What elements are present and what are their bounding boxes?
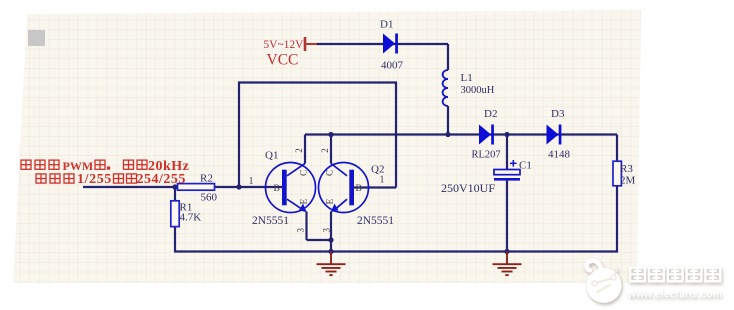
svg-text:254/255: 254/255 [137, 172, 186, 187]
svg-text:D3: D3 [551, 108, 565, 120]
svg-text:1/255: 1/255 [77, 172, 112, 187]
svg-text:R3: R3 [620, 163, 633, 175]
svg-text:560: 560 [201, 192, 218, 204]
svg-text:D1: D1 [380, 19, 393, 31]
svg-text:4007: 4007 [381, 60, 404, 72]
svg-text:C: C [326, 170, 336, 176]
svg-text:2: 2 [320, 148, 330, 153]
svg-text:C: C [300, 170, 310, 176]
svg-text:E: E [326, 199, 336, 205]
svg-text:250V10UF: 250V10UF [441, 181, 495, 195]
svg-text:L1: L1 [461, 72, 473, 84]
svg-text:2M: 2M [620, 175, 636, 187]
svg-text:Q1: Q1 [265, 150, 278, 162]
svg-text:3: 3 [322, 228, 332, 233]
svg-text:3000uH: 3000uH [461, 85, 495, 96]
svg-text:2N5551: 2N5551 [357, 215, 394, 227]
svg-text:4148: 4148 [548, 149, 571, 161]
svg-text:2: 2 [294, 148, 304, 153]
svg-text:4.7K: 4.7K [180, 212, 202, 224]
svg-text:E: E [300, 199, 310, 205]
svg-text:5V~12V: 5V~12V [263, 39, 304, 51]
svg-text:www.elecfans.com: www.elecfans.com [627, 290, 722, 301]
svg-text:RL207: RL207 [472, 150, 501, 161]
svg-text:1: 1 [249, 176, 254, 187]
svg-text:1: 1 [380, 175, 385, 186]
svg-text:C1: C1 [519, 160, 532, 172]
svg-text:D2: D2 [484, 108, 497, 120]
svg-text:PWM: PWM [63, 159, 94, 173]
svg-text:B: B [274, 184, 280, 194]
svg-text:2N5551: 2N5551 [252, 215, 289, 227]
svg-text:VCC: VCC [267, 52, 299, 69]
svg-text:R2: R2 [200, 173, 213, 185]
svg-text:3: 3 [296, 228, 306, 233]
svg-text:B: B [356, 184, 362, 194]
